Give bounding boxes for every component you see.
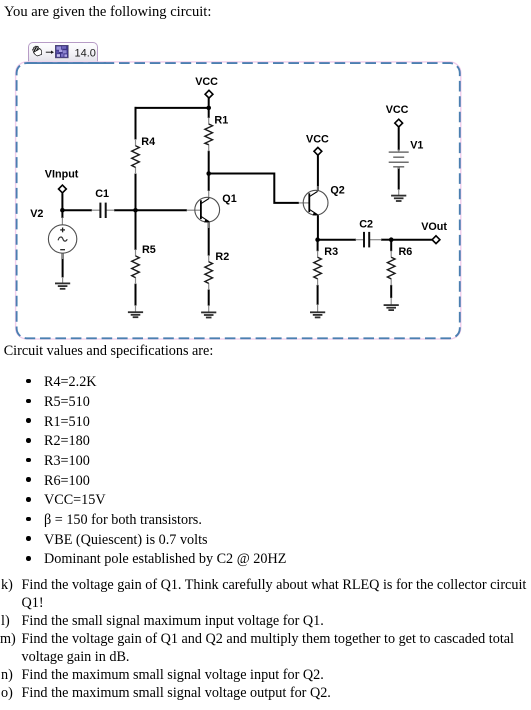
- toolbar tab: [28, 42, 98, 64]
- lead Q1 collector: [208, 191, 210, 198]
- transistor Q2: [303, 185, 345, 216]
- ground under V1: [391, 196, 406, 201]
- wire node F to VOut: [391, 239, 432, 241]
- wire V1 to ground: [398, 168, 400, 190]
- svg-text:R6: R6: [399, 246, 413, 258]
- resistor R6: [387, 246, 412, 279]
- port VCC (V1): [386, 104, 409, 127]
- junction node emitter-R3-C2: [315, 237, 320, 242]
- wire R6 upper lead: [390, 240, 392, 252]
- lead V2 top: [61, 218, 63, 226]
- lead R2: [208, 255, 210, 262]
- lead R1: [208, 118, 210, 125]
- wire R3 upper lead: [317, 240, 319, 252]
- svg-text:R4: R4: [141, 136, 155, 148]
- selection marquee pink underlay: [16, 62, 461, 339]
- svg-text:VInput: VInput: [45, 169, 79, 181]
- wire R5 upper lead: [135, 210, 137, 250]
- wire C1 to node B: [114, 209, 136, 211]
- section heading: [4, 344, 214, 358]
- lead Q2 base: [299, 202, 310, 204]
- resistor R3: [314, 246, 338, 279]
- svg-text:R5: R5: [142, 244, 156, 256]
- wire Q1 collector: [208, 174, 210, 192]
- wire R1 upper lead: [208, 108, 210, 118]
- wire R3 lower lead: [317, 285, 319, 305]
- lead gnd R5: [135, 305, 137, 312]
- wire R6 lower lead: [390, 285, 392, 298]
- capacitor C1: [95, 188, 109, 218]
- junction node rail-R1: [206, 106, 211, 111]
- lead C1: [92, 209, 101, 211]
- wire R4 lower lead: [135, 174, 137, 211]
- lead V1 battery bottom: [398, 167, 400, 169]
- lead R5: [135, 249, 137, 256]
- resistor R4: [132, 136, 155, 168]
- svg-text:VOut: VOut: [421, 221, 447, 233]
- junction node C2-R6-VOut: [389, 237, 394, 242]
- svg-text:VCC: VCC: [195, 76, 218, 88]
- ground under R2: [201, 312, 216, 317]
- capacitor C2: [359, 218, 373, 247]
- resistor R2: [205, 251, 229, 283]
- solid border segment under tab: [27, 62, 106, 64]
- wire VCC3 port to V1: [398, 127, 400, 150]
- mini image icon: [55, 45, 68, 58]
- port VCC (R1 top): [195, 76, 218, 98]
- lead C2: [356, 239, 364, 241]
- svg-text:R1: R1: [214, 115, 228, 127]
- ground under R3: [310, 312, 325, 317]
- lead R6: [390, 251, 392, 258]
- arrow: [46, 50, 54, 53]
- lead gnd R3: [317, 304, 319, 312]
- ground under V2: [55, 283, 70, 288]
- svg-text:Q1: Q1: [222, 193, 236, 205]
- source V2: [30, 208, 77, 253]
- wire VCC1 port to rail: [208, 98, 210, 108]
- ground under R5: [128, 312, 143, 317]
- junction node B (R4/R5/base): [133, 208, 138, 213]
- wire collector node to Q2 base: [209, 174, 299, 203]
- lead R4: [135, 139, 137, 146]
- wire R1 lower lead: [208, 151, 210, 174]
- port VInput: [45, 169, 79, 193]
- lead gnd R2: [208, 305, 210, 312]
- lead gnd R6: [390, 298, 392, 306]
- wire Q2 emitter down: [317, 215, 319, 240]
- svg-text:VCC: VCC: [306, 133, 329, 145]
- resistor R5: [132, 244, 156, 278]
- svg-text:V1: V1: [410, 139, 423, 151]
- wire V2 bottom to ground: [62, 253, 64, 277]
- transistor Q1: [195, 193, 237, 222]
- questions: [0, 577, 1, 579]
- wire node B to Q1 base: [136, 209, 188, 211]
- lead Q2 collector: [317, 186, 319, 191]
- svg-text:C1: C1: [95, 188, 109, 200]
- svg-text:V2: V2: [30, 208, 43, 220]
- junction node collector: [206, 171, 211, 176]
- wire R5 lower lead: [135, 284, 137, 306]
- wire VCC2 port to Q2 collector: [317, 155, 319, 191]
- svg-text:C2: C2: [359, 218, 373, 230]
- resistor R1: [205, 115, 228, 145]
- lead Q1 emitter: [208, 222, 210, 229]
- svg-text:R2: R2: [215, 251, 229, 263]
- lead gnd V1: [398, 189, 400, 195]
- svg-text:R3: R3: [324, 246, 338, 258]
- svg-text:VCC: VCC: [386, 104, 409, 116]
- lead Q1 base: [187, 209, 201, 211]
- dashed blue border: [17, 63, 460, 338]
- wire VInput port down: [61, 193, 63, 218]
- hand icon: [32, 44, 43, 56]
- port VOut: [421, 221, 447, 244]
- wire R4 upper lead: [135, 107, 137, 140]
- wire emitter node to C2: [318, 239, 356, 241]
- wire top rail: [135, 107, 209, 109]
- wire Q1 emitter to R2: [208, 222, 210, 256]
- junction node VInput-C1: [60, 208, 65, 213]
- bullet list: [0, 374, 1, 376]
- lead V1 battery top: [398, 150, 400, 153]
- lead R3: [317, 251, 319, 258]
- port VCC (Q2): [306, 133, 329, 155]
- battery V1: [389, 139, 424, 167]
- wire R2 to ground: [208, 289, 210, 305]
- ground under R6: [384, 305, 399, 310]
- title text: [4, 5, 211, 19]
- lead V2 bottom: [62, 253, 64, 259]
- wire node to C1: [62, 209, 92, 211]
- wire C2 to node F: [381, 239, 391, 241]
- svg-text:Q2: Q2: [330, 185, 344, 197]
- lead gnd V2: [62, 277, 64, 283]
